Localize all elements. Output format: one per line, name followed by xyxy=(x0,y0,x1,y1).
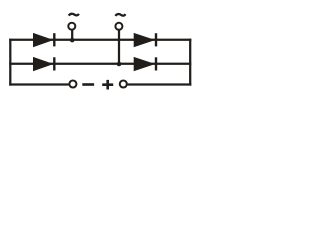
wire: left vertical bus xyxy=(9,39,11,86)
label plus sign xyxy=(102,80,113,90)
label ~ for AC terminal 2 xyxy=(115,14,125,16)
label ~ for AC terminal 1 xyxy=(69,14,79,16)
wire: right vertical bus xyxy=(189,39,191,86)
AC terminal 2 circle xyxy=(115,23,122,30)
DC minus terminal circle xyxy=(69,80,76,87)
wire: bottom rail left segment (to minus terminal) xyxy=(9,83,68,85)
wire: AC terminal 2 drop to middle rail xyxy=(118,30,120,65)
wire: top rail xyxy=(9,39,191,41)
diode D1 (top-left) xyxy=(33,33,54,47)
wire: middle rail xyxy=(9,63,191,65)
label minus sign xyxy=(82,83,94,86)
junction dot: AC2 to middle rail xyxy=(117,62,122,67)
junction dot: AC1 to top rail xyxy=(70,38,75,43)
diode D4 (middle-right) xyxy=(134,57,156,71)
AC terminal 1 circle xyxy=(68,23,75,30)
DC plus terminal circle xyxy=(120,80,127,87)
wire: bottom rail right segment (from plus terminal) xyxy=(128,83,192,85)
diode D2 (top-right) xyxy=(134,33,156,47)
wire: AC terminal 1 drop to top rail xyxy=(71,30,73,41)
diode D3 (middle-left) xyxy=(33,57,54,71)
